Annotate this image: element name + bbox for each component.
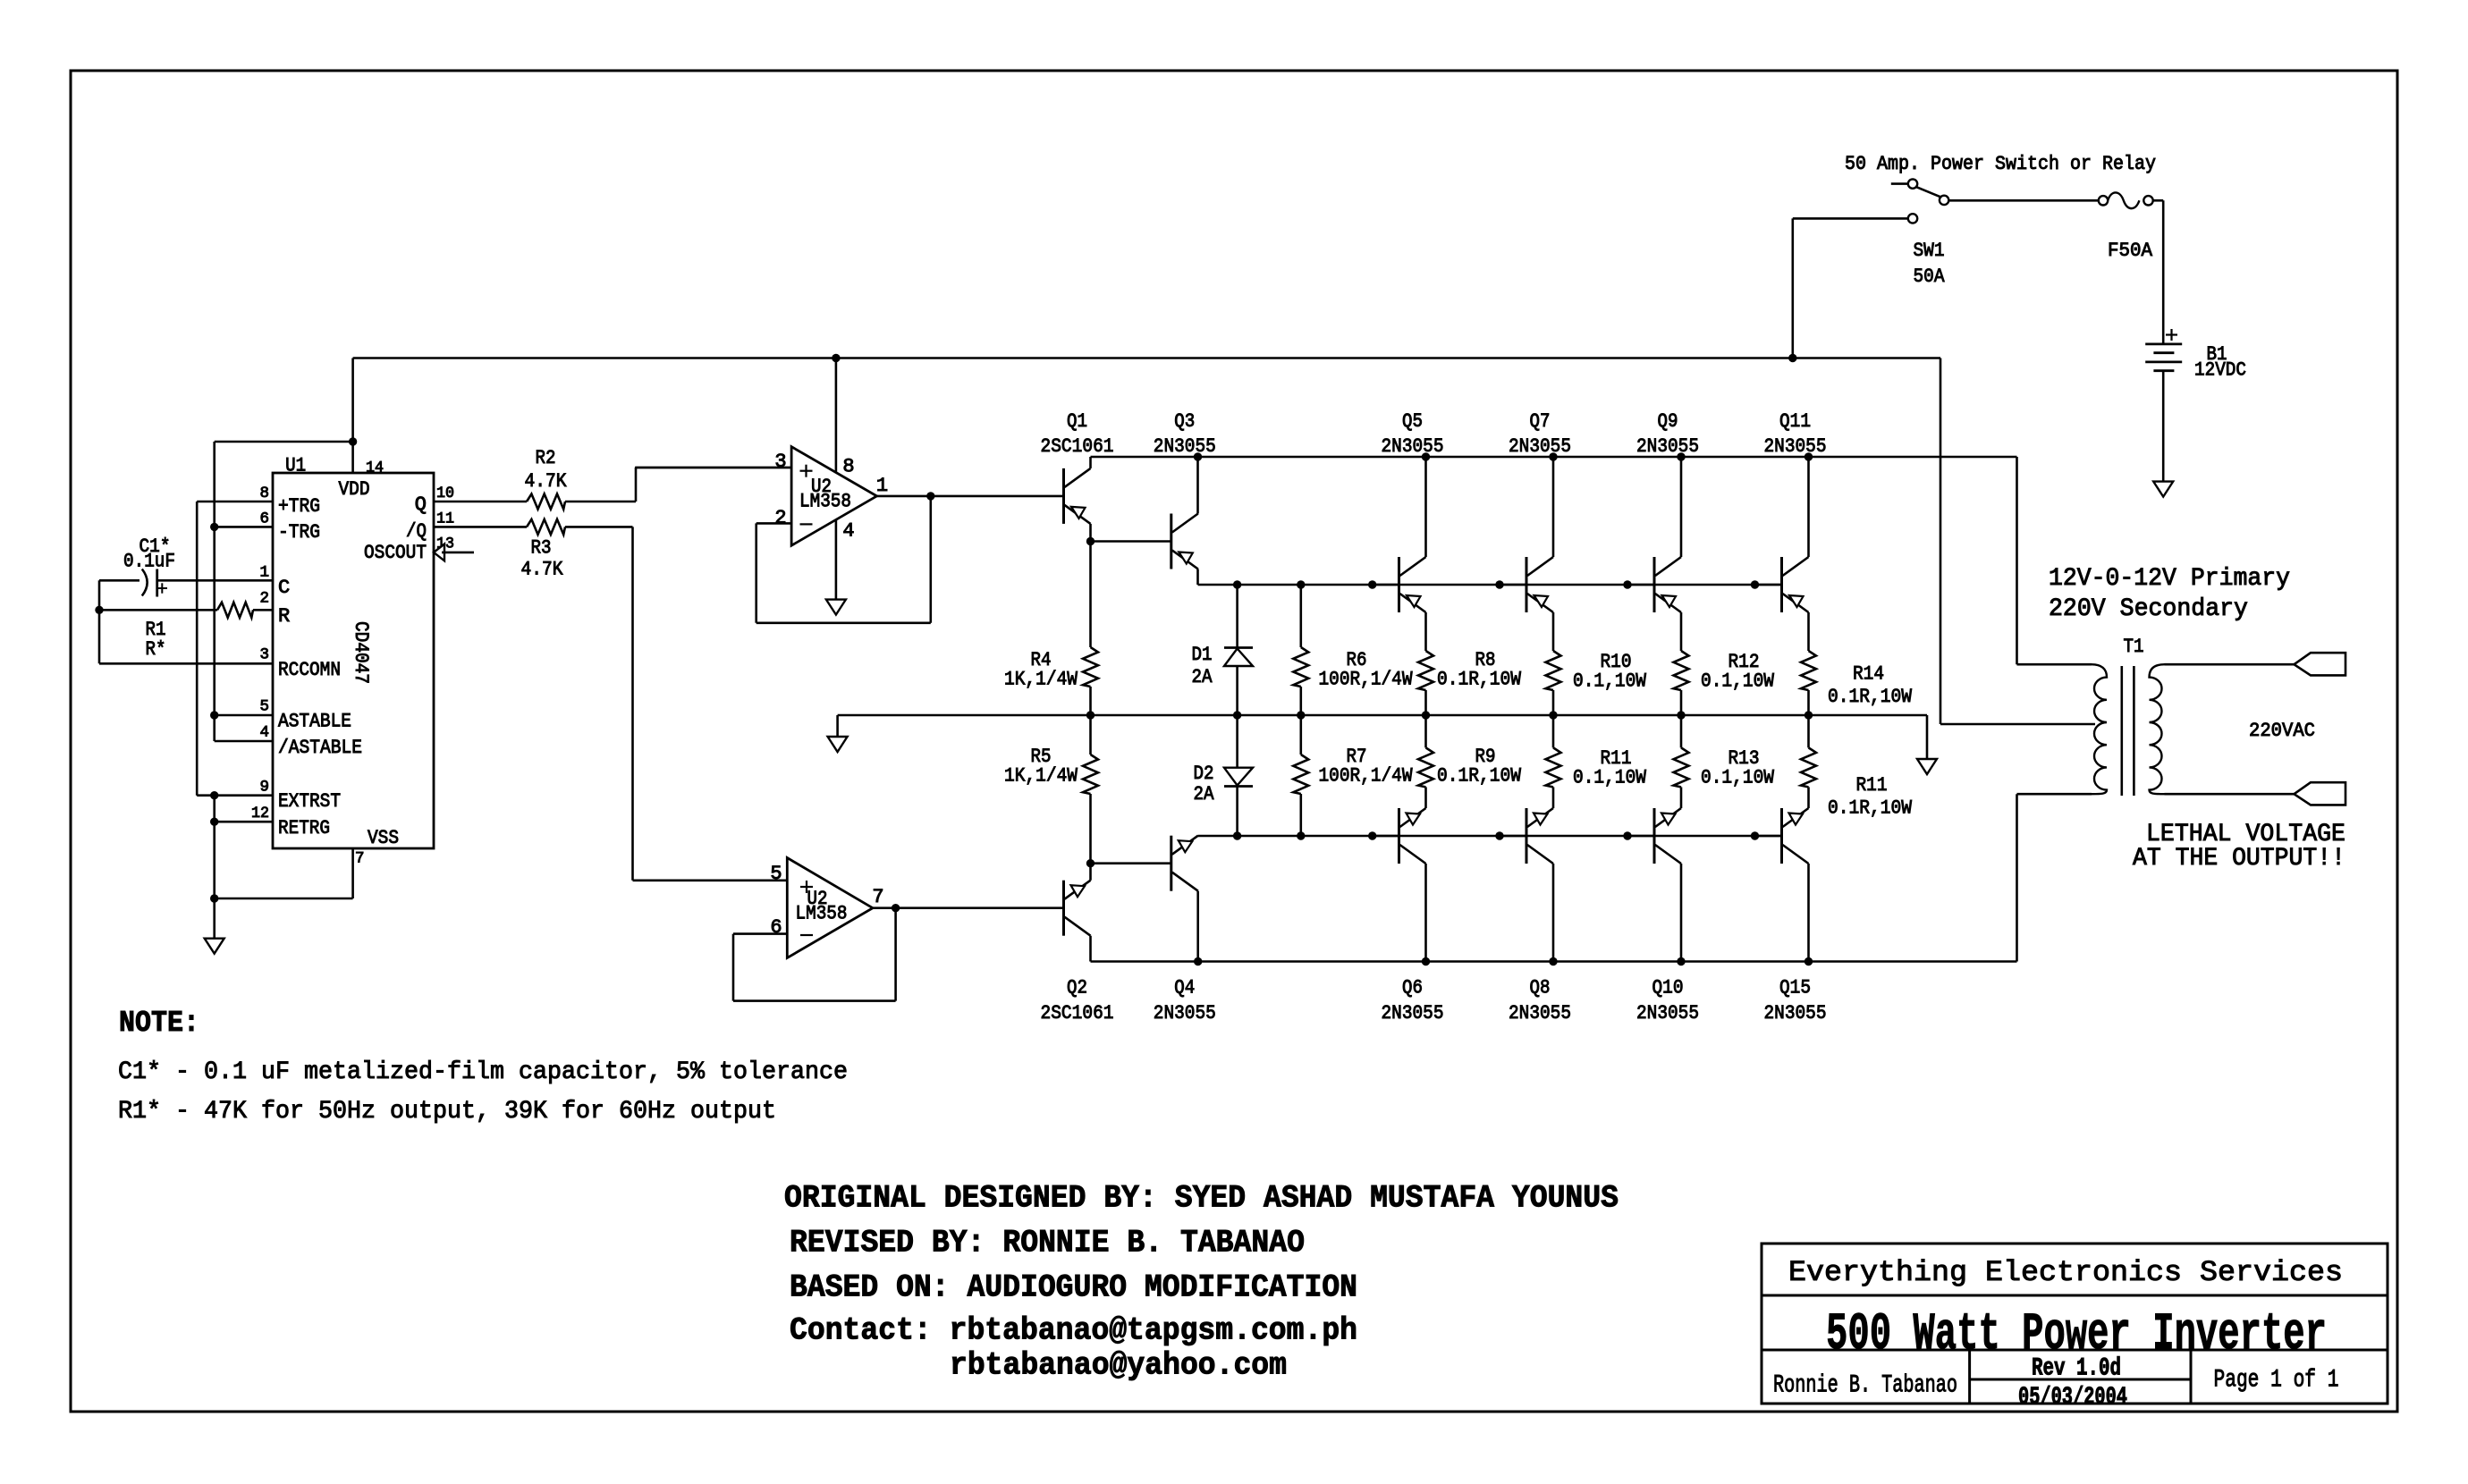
svg-text:OSCOUT: OSCOUT	[364, 542, 427, 564]
svg-text:2N3055: 2N3055	[1154, 435, 1216, 458]
svg-text:0.1R,10W: 0.1R,10W	[1828, 797, 1913, 819]
svg-text:2A: 2A	[1194, 783, 1215, 805]
svg-text:2N3055: 2N3055	[1509, 435, 1571, 458]
svg-text:05/03/2004: 05/03/2004	[2018, 1384, 2127, 1412]
svg-text:Q15: Q15	[1779, 976, 1811, 999]
svg-text:1K,1/4W: 1K,1/4W	[1004, 764, 1078, 787]
svg-text:REVISED BY: RONNIE B. TABANAO: REVISED BY: RONNIE B. TABANAO	[790, 1226, 1305, 1261]
svg-text:RETRG: RETRG	[278, 817, 330, 839]
svg-text:4.7K: 4.7K	[525, 470, 568, 493]
svg-text:12: 12	[251, 805, 269, 822]
svg-text:0.1,10W: 0.1,10W	[1701, 766, 1775, 788]
svg-text:100R,1/4W: 100R,1/4W	[1319, 764, 1414, 787]
svg-text:0.1,10W: 0.1,10W	[1573, 766, 1647, 788]
svg-text:ASTABLE: ASTABLE	[278, 710, 351, 732]
svg-text:5: 5	[259, 697, 269, 715]
svg-text:Q3: Q3	[1174, 410, 1195, 433]
svg-text:Contact: rbtabanao@tapgsm.com.: Contact: rbtabanao@tapgsm.com.ph	[790, 1313, 1357, 1349]
svg-text:R14: R14	[1853, 662, 1884, 685]
svg-text:Rev 1.0d: Rev 1.0d	[2032, 1355, 2121, 1383]
svg-text:C: C	[278, 577, 290, 599]
svg-text:10: 10	[436, 485, 454, 502]
svg-text:R: R	[278, 605, 290, 628]
svg-text:+TRG: +TRG	[278, 495, 320, 518]
svg-text:220V Secondary: 220V Secondary	[2049, 595, 2248, 623]
svg-text:2N3055: 2N3055	[1382, 1002, 1444, 1024]
svg-text:SW1: SW1	[1914, 240, 1945, 262]
svg-text:2N3055: 2N3055	[1636, 1002, 1699, 1024]
svg-text:Q: Q	[415, 493, 427, 516]
svg-text:rbtabanao@yahoo.com: rbtabanao@yahoo.com	[950, 1348, 1287, 1384]
svg-text:Q11: Q11	[1779, 410, 1811, 433]
svg-text:4: 4	[259, 723, 269, 741]
svg-text:D2: D2	[1194, 763, 1214, 785]
svg-text:0.1uF: 0.1uF	[123, 550, 175, 572]
svg-text:0.1R,10W: 0.1R,10W	[1437, 764, 1522, 787]
svg-text:1K,1/4W: 1K,1/4W	[1004, 668, 1078, 690]
svg-text:Q6: Q6	[1402, 976, 1423, 999]
svg-text:6: 6	[259, 510, 269, 527]
svg-text:1: 1	[876, 475, 888, 497]
svg-text:2SC1061: 2SC1061	[1041, 435, 1114, 458]
svg-text:220VAC: 220VAC	[2249, 720, 2315, 742]
svg-text:4: 4	[842, 519, 854, 542]
svg-text:12V-0-12V Primary: 12V-0-12V Primary	[2049, 565, 2290, 593]
svg-text:Q5: Q5	[1402, 410, 1423, 433]
svg-text:2A: 2A	[1192, 666, 1213, 688]
svg-text:Page 1 of 1: Page 1 of 1	[2214, 1367, 2339, 1395]
svg-text:100R,1/4W: 100R,1/4W	[1319, 668, 1414, 690]
svg-text:Everything Electronics Service: Everything Electronics Services	[1788, 1256, 2343, 1289]
svg-text:C1* - 0.1 uF metalized-film ca: C1* - 0.1 uF metalized-film capacitor, 5…	[118, 1058, 848, 1086]
svg-text:/ASTABLE: /ASTABLE	[278, 737, 362, 759]
svg-text:7: 7	[355, 849, 365, 867]
svg-text:8: 8	[259, 485, 269, 502]
svg-text:D1: D1	[1192, 644, 1213, 666]
svg-text:7: 7	[872, 886, 883, 908]
svg-text:1: 1	[259, 563, 269, 581]
svg-text:11: 11	[436, 510, 454, 527]
svg-text:LM358: LM358	[799, 490, 851, 512]
svg-text:R11: R11	[1856, 774, 1888, 797]
svg-text:LM358: LM358	[796, 902, 848, 924]
svg-text:5: 5	[770, 863, 782, 885]
svg-text:Q10: Q10	[1652, 976, 1684, 999]
svg-text:0.1,10W: 0.1,10W	[1573, 670, 1647, 692]
svg-text:12VDC: 12VDC	[2194, 358, 2246, 381]
svg-text:2: 2	[774, 507, 786, 529]
svg-text:2SC1061: 2SC1061	[1041, 1002, 1114, 1024]
svg-text:6: 6	[770, 916, 782, 939]
svg-text:ORIGINAL DESIGNED BY: SYED ASH: ORIGINAL DESIGNED BY: SYED ASHAD MUSTAFA…	[784, 1181, 1619, 1217]
svg-text:U1: U1	[285, 454, 306, 476]
svg-text:-TRG: -TRG	[278, 521, 320, 544]
svg-text:0.1R,10W: 0.1R,10W	[1437, 668, 1522, 690]
svg-text:Q2: Q2	[1067, 976, 1087, 999]
svg-text:14: 14	[366, 459, 384, 476]
svg-text:2N3055: 2N3055	[1764, 1002, 1827, 1024]
svg-text:/Q: /Q	[406, 520, 427, 543]
svg-text:R*: R*	[146, 638, 166, 661]
svg-text:F50A: F50A	[2108, 240, 2153, 262]
svg-text:T1: T1	[2124, 636, 2144, 658]
svg-text:VDD: VDD	[339, 478, 370, 501]
svg-text:Q4: Q4	[1174, 976, 1195, 999]
svg-text:2N3055: 2N3055	[1509, 1002, 1571, 1024]
svg-text:3: 3	[774, 451, 786, 473]
svg-text:2N3055: 2N3055	[1764, 435, 1827, 458]
svg-text:BASED ON: AUDIOGURO MODIFICATI: BASED ON: AUDIOGURO MODIFICATION	[790, 1270, 1357, 1306]
svg-text:AT THE OUTPUT!!: AT THE OUTPUT!!	[2133, 845, 2345, 873]
svg-text:Q1: Q1	[1067, 410, 1087, 433]
svg-text:9: 9	[259, 778, 269, 796]
svg-text:50A: 50A	[1914, 266, 1946, 288]
svg-text:Q8: Q8	[1530, 976, 1551, 999]
svg-text:R3: R3	[531, 536, 552, 559]
svg-text:Q7: Q7	[1530, 410, 1551, 433]
svg-text:VSS: VSS	[368, 827, 399, 849]
svg-text:Ronnie B. Tabanao: Ronnie B. Tabanao	[1773, 1372, 1957, 1400]
svg-text:EXTRST: EXTRST	[278, 790, 341, 813]
svg-text:0.1,10W: 0.1,10W	[1701, 670, 1775, 692]
svg-text:0.1R,10W: 0.1R,10W	[1828, 686, 1913, 708]
svg-text:2N3055: 2N3055	[1154, 1002, 1216, 1024]
svg-text:50 Amp. Power Switch or Relay: 50 Amp. Power Switch or Relay	[1845, 153, 2156, 175]
svg-text:NOTE:: NOTE:	[119, 1007, 199, 1040]
svg-text:RCCOMN: RCCOMN	[278, 659, 341, 681]
svg-text:2N3055: 2N3055	[1636, 435, 1699, 458]
svg-text:R1* - 47K for 50Hz output, 39K: R1* - 47K for 50Hz output, 39K for 60Hz …	[118, 1098, 776, 1126]
svg-text:2N3055: 2N3055	[1382, 435, 1444, 458]
svg-text:4.7K: 4.7K	[521, 558, 564, 580]
svg-text:2: 2	[259, 589, 269, 607]
svg-text:8: 8	[842, 455, 854, 477]
svg-text:R2: R2	[536, 447, 556, 469]
svg-text:CD4047: CD4047	[350, 621, 372, 684]
svg-text:3: 3	[259, 645, 269, 663]
svg-text:Q9: Q9	[1658, 410, 1678, 433]
